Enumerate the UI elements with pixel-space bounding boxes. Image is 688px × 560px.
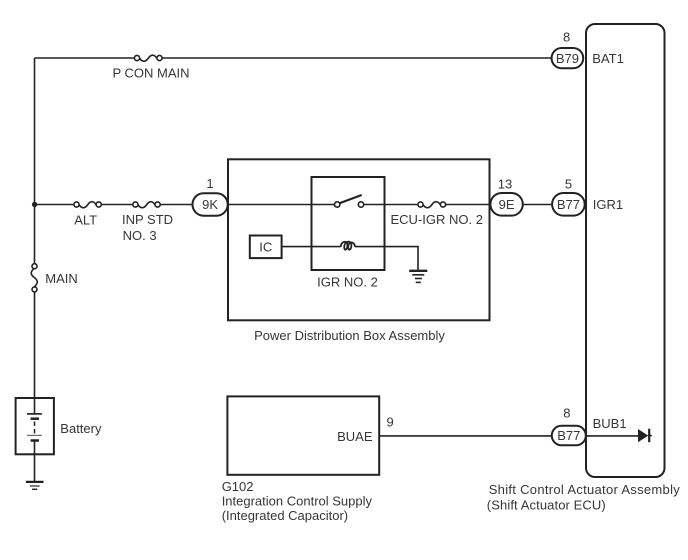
connector B79 [552, 48, 584, 68]
svg-text:8: 8 [563, 29, 570, 44]
box Shift Control Actuator Assembly ECU [586, 24, 665, 477]
wire row2 to ALT [35, 204, 74, 206]
svg-text:(Integrated Capacitor): (Integrated Capacitor) [222, 508, 348, 523]
svg-text:BUAE: BUAE [337, 429, 373, 444]
wire B77 to diode [586, 435, 638, 437]
node junction row2 [32, 202, 37, 207]
svg-text:MAIN: MAIN [45, 271, 78, 286]
wire top BAT1 row left segment [35, 57, 135, 59]
label INP STD NO. 3 [122, 212, 173, 243]
wire left vertical lower into battery [34, 292, 36, 413]
svg-text:9E: 9E [499, 197, 515, 212]
svg-text:Shift Control Actuator Assembl: Shift Control Actuator Assembly [489, 482, 681, 497]
svg-text:Battery: Battery [60, 421, 102, 436]
ground (relay coil) [409, 271, 427, 283]
svg-text:G102: G102 [222, 479, 254, 494]
relay coil [341, 242, 356, 250]
svg-text:BUB1: BUB1 [593, 416, 627, 431]
wire 9E to B77 [523, 204, 552, 206]
wire fuse to 9E [446, 204, 491, 206]
diode D [638, 429, 652, 443]
wire left vertical upper [34, 58, 36, 264]
wire coil to ground corner [355, 247, 418, 270]
svg-text:9K: 9K [202, 197, 218, 212]
box Power Distribution Box Assembly [228, 159, 490, 320]
battery box [16, 398, 54, 454]
ground (battery) [26, 482, 44, 489]
connector B77 IGR1 [552, 193, 585, 216]
svg-text:B79: B79 [556, 51, 579, 66]
svg-text:B77: B77 [557, 197, 580, 212]
svg-text:1: 1 [206, 176, 213, 191]
fusible link MAIN [31, 264, 37, 292]
svg-text:INP STD: INP STD [122, 212, 173, 227]
svg-text:9: 9 [387, 415, 394, 430]
wire IC to coil [282, 246, 341, 248]
wire switch to ECU-IGR fuse [364, 204, 418, 206]
box G102 Integration Control Supply [227, 396, 379, 474]
svg-text:ECU-IGR NO. 2: ECU-IGR NO. 2 [391, 212, 483, 227]
wire ALT to INP STD [101, 204, 133, 206]
svg-text:NO. 3: NO. 3 [123, 228, 157, 243]
svg-text:IGR NO. 2: IGR NO. 2 [317, 275, 378, 290]
battery cell plates [27, 414, 42, 481]
fuse ALT [74, 202, 101, 208]
wire INP STD to 9K [160, 204, 192, 206]
svg-text:IGR1: IGR1 [593, 197, 623, 212]
wire 9K to relay switch [228, 204, 335, 206]
svg-text:P CON MAIN: P CON MAIN [113, 66, 190, 81]
svg-text:B77: B77 [557, 428, 580, 443]
relay switch contact [335, 195, 364, 207]
fuse P CON MAIN [134, 55, 162, 61]
svg-text:BAT1: BAT1 [592, 51, 624, 66]
box relay IGR NO. 2 [312, 177, 385, 270]
box IC [250, 236, 282, 259]
wire top BAT1 row right segment [162, 57, 552, 59]
label Shift Control Actuator Assembly [487, 482, 680, 513]
fuse ECU-IGR NO. 2 [418, 202, 446, 208]
wire BUAE to B77 [379, 435, 552, 437]
svg-text:(Shift Actuator ECU): (Shift Actuator ECU) [487, 497, 606, 512]
connector 9E [490, 193, 522, 216]
svg-text:ALT: ALT [74, 212, 97, 227]
label G102 block [222, 479, 373, 523]
svg-text:IC: IC [259, 239, 272, 254]
svg-text:Power Distribution Box Assembl: Power Distribution Box Assembly [254, 328, 445, 343]
connector 9K [193, 193, 228, 216]
svg-text:8: 8 [563, 405, 570, 420]
connector B77 BUB1 [552, 426, 586, 446]
svg-text:Integration Control Supply: Integration Control Supply [222, 494, 373, 509]
svg-text:13: 13 [498, 176, 512, 191]
fuse INP STD NO. 3 [133, 202, 160, 208]
svg-text:5: 5 [565, 176, 572, 191]
